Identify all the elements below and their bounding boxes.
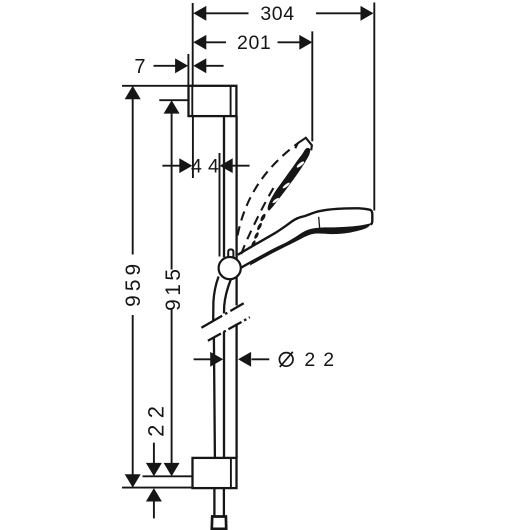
- break line upper: [201, 303, 243, 328]
- phantom shower spray face dark band: [268, 148, 311, 211]
- top bracket: [189, 86, 237, 116]
- hose below bottom bracket: [213, 488, 215, 516]
- svg-text:304: 304: [260, 3, 294, 25]
- svg-text:959: 959: [122, 260, 145, 307]
- dimension 22 lower arrow up: [146, 488, 162, 501]
- dimension 915 vertical line: [171, 112, 173, 270]
- dimension 959 arrow bottom: [125, 474, 141, 487]
- dimension 915 arrow bottom: [164, 463, 180, 476]
- hose connector nut: [212, 517, 226, 529]
- dimension 201 arrow right: [299, 35, 312, 50]
- svg-text:22: 22: [304, 349, 342, 371]
- dimension 7 arrow left: [175, 58, 188, 73]
- dimension diameter 22 arrow left: [210, 352, 223, 367]
- phantom band nicks: [272, 160, 305, 203]
- dimension diameter 22 arrow right: [238, 352, 251, 367]
- dimension diameter 22 line: [194, 358, 211, 360]
- svg-text:915: 915: [162, 266, 185, 311]
- hand shower handle and head top outline: [238, 208, 372, 255]
- dimension 44 arrow left: [179, 158, 192, 173]
- dimension 201 line: [205, 41, 226, 43]
- phantom shower left dashed outline: [238, 143, 299, 236]
- dimension 304 arrow right: [361, 6, 374, 21]
- phantom shower right dashed outline: [241, 188, 273, 254]
- dimension 304 arrow left: [193, 6, 206, 21]
- extension line 201 right: [311, 31, 313, 141]
- extension line left (304/201/7): [192, 3, 194, 85]
- slider pivot circle: [219, 257, 241, 279]
- slider pivot knob: [228, 249, 233, 258]
- hose right edge merged with rail left: [224, 279, 231, 313]
- dimension 7 arrow right: [193, 58, 206, 73]
- hand shower spray face dark band: [250, 223, 372, 266]
- dimension 201 arrow left: [193, 35, 206, 50]
- phantom spray blobs: [251, 213, 267, 247]
- extension line bottom (at bracket bottom): [122, 487, 193, 489]
- dimension 915 arrow top: [164, 100, 180, 113]
- dimension 22 vertical line: [153, 443, 155, 464]
- extension line 44 right: [219, 153, 221, 257]
- dimension 44 line: [162, 165, 179, 167]
- dimension 959 vertical line: [132, 98, 134, 255]
- svg-text:22: 22: [144, 399, 169, 436]
- svg-text:7: 7: [134, 56, 146, 78]
- hose left edge: [213, 277, 218, 321]
- extension line 915 top: [159, 99, 188, 101]
- phantom spray band upper blob: [273, 154, 310, 202]
- phantom shower cap: [295, 138, 312, 151]
- wall bar rail left edge: [223, 116, 225, 257]
- hand shower handle bottom and head bottom outline: [241, 241, 293, 268]
- extension line 7 left: [187, 54, 189, 85]
- wall bar rail right edge: [235, 116, 237, 259]
- extension line top (at bracket top): [122, 85, 189, 87]
- hand shower face tick: [319, 217, 320, 229]
- bottom bracket: [193, 458, 237, 488]
- dimension 22 arrow down: [146, 463, 162, 476]
- break line lower: [208, 317, 250, 341]
- svg-text:44: 44: [191, 156, 225, 178]
- dimension 44 arrow right: [220, 158, 233, 173]
- extension line 915 bottom: [143, 475, 193, 477]
- dimension 959 arrow top: [125, 86, 141, 99]
- extension line 304 right: [373, 3, 375, 211]
- dimension 304 line: [205, 12, 249, 14]
- extension line 44 left: [192, 117, 194, 179]
- diameter symbol: [279, 352, 293, 367]
- svg-text:201: 201: [237, 32, 271, 54]
- dimension 7 line: [154, 65, 176, 67]
